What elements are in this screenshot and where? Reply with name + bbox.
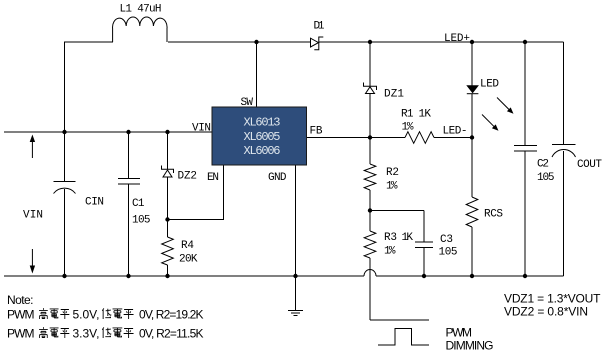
- wire: C2 bottom lead: [524, 151, 526, 276]
- svg-text:105: 105: [132, 215, 151, 227]
- svg-text:VIN: VIN: [192, 123, 211, 135]
- wire: R3 bottom lead crossing ground rail to PWM input: [370, 258, 429, 320]
- svg-text:R2: R2: [386, 167, 399, 179]
- svg-text:FB: FB: [310, 126, 323, 138]
- svg-text:0V, R2=11.5K: 0V, R2=11.5K: [139, 327, 204, 341]
- capacitor C2 plates: [514, 146, 537, 152]
- wire: EN pin drop and across to DZ2/R4 node: [168, 165, 224, 220]
- svg-text:COUT: COUT: [577, 159, 602, 171]
- wire: hop where R3 lead crosses ground rail: [364, 270, 376, 277]
- svg-text:1%: 1%: [384, 246, 396, 258]
- svg-text:0V, R2=19.2K: 0V, R2=19.2K: [139, 308, 204, 322]
- LED D2 (filled triangle + bar): [467, 86, 479, 94]
- wire: RCS bottom to ground rail: [471, 227, 473, 276]
- note: line 1 PWM high level 5.0V: [7, 308, 204, 322]
- diode D1 (schottky): [311, 37, 324, 50]
- zener DZ1: [364, 83, 377, 94]
- svg-text:PWM: PWM: [7, 308, 35, 322]
- wire: switch-node rail from L1 to D1 anode: [168, 41, 311, 43]
- wire: DZ1 bottom to FB node: [369, 94, 371, 138]
- node: L1/CIN junction on input rail: [62, 130, 66, 134]
- svg-text:RCS: RCS: [484, 209, 503, 221]
- wire: R4 top lead: [167, 220, 169, 238]
- wire: DZ2 top lead: [167, 132, 169, 170]
- node: SW junction on switch rail: [254, 40, 258, 44]
- wire: ground bottom rail left of hop: [4, 275, 364, 277]
- wire: output top rail from D1 cathode to right edge: [319, 41, 564, 43]
- VIN polarity up arrow: [30, 135, 35, 159]
- node: DZ1 junction on output rail: [368, 40, 372, 44]
- wire: CIN top lead: [64, 132, 66, 181]
- resistor R3 1K 1% (vertical zigzag): [364, 231, 376, 258]
- node: RCS ground junction: [470, 274, 474, 278]
- VIN polarity down arrow: [30, 249, 35, 274]
- svg-text:VDZ1 = 1.3*VOUT: VDZ1 = 1.3*VOUT: [504, 292, 601, 306]
- capacitor CIN (polarized, curved bottom plate): [54, 182, 76, 194]
- wire: VIN input top rail: [4, 131, 212, 133]
- note: line 2 PWM high level 3.3V: [7, 327, 204, 341]
- wire: CIN bottom lead: [64, 189, 66, 276]
- node: C3 ground junction: [422, 274, 426, 278]
- wire: R3 top lead: [369, 211, 371, 232]
- LED emission arrow 1: [497, 98, 514, 114]
- zener DZ2: [162, 166, 174, 178]
- node: C1 ground junction: [126, 274, 130, 278]
- wire: R4 bottom lead: [167, 265, 169, 276]
- wire: C2 top lead: [524, 42, 526, 146]
- svg-text:5.0V,: 5.0V,: [73, 308, 100, 322]
- svg-text:R1 1K: R1 1K: [401, 109, 431, 121]
- capacitor C3 plates: [415, 242, 433, 248]
- svg-text:1K: 1K: [402, 232, 414, 244]
- wire: R2 bottom lead to node: [369, 190, 371, 211]
- node: R4 ground junction: [165, 274, 169, 278]
- capacitor C1 plates: [118, 179, 140, 185]
- inductor L1: [113, 17, 168, 42]
- node: GND pin junction: [293, 274, 297, 278]
- svg-text:XL6005: XL6005: [244, 130, 281, 144]
- svg-text:VDZ2 = 0.8*VIN: VDZ2 = 0.8*VIN: [504, 305, 588, 319]
- wire: right edge down to COUT top plate: [563, 42, 565, 144]
- svg-text:XL6006: XL6006: [244, 144, 281, 158]
- svg-text:R4: R4: [181, 240, 194, 252]
- svg-text:R3: R3: [384, 232, 397, 244]
- wire: LED+ branch top lead: [471, 42, 473, 86]
- resistor R2 1% (vertical zigzag): [364, 164, 376, 190]
- svg-text:VIN: VIN: [23, 210, 43, 222]
- wire: R2 top lead: [369, 138, 371, 165]
- svg-text:C3: C3: [440, 234, 453, 246]
- resistor R1 1K 1% (horizontal zigzag): [405, 132, 434, 144]
- wire: LED cathode to LED- node: [471, 94, 473, 138]
- node: FB node: [368, 135, 372, 139]
- wire: ground bottom rail right of hop: [376, 275, 564, 277]
- svg-text:LED: LED: [480, 79, 499, 91]
- node: LED- node: [470, 135, 474, 139]
- node: C2 junction on output rail: [523, 40, 527, 44]
- svg-text:LED+: LED+: [444, 33, 470, 45]
- wire: C3 bottom to ground rail: [423, 248, 425, 277]
- wire: DZ2 bottom to EN node: [167, 177, 169, 220]
- resistor RCS (vertical zigzag): [466, 197, 478, 227]
- ground symbol bars: [288, 311, 303, 316]
- svg-text:EN: EN: [207, 172, 219, 184]
- wire: R1 right to LED- node: [434, 137, 472, 139]
- svg-text:105: 105: [439, 247, 458, 259]
- svg-text:DZ2: DZ2: [178, 171, 198, 183]
- svg-text:3.3V,: 3.3V,: [73, 327, 100, 341]
- svg-text:1%: 1%: [402, 122, 414, 134]
- wire: FB pin to R1 left: [307, 137, 406, 139]
- wire: C1 top lead: [128, 132, 130, 179]
- node: DZ2/EN/R4 node: [165, 217, 169, 221]
- svg-text:D1: D1: [314, 21, 325, 33]
- wire: input rail up to inductor left lead: [65, 42, 114, 132]
- node: C2 ground junction: [523, 274, 527, 278]
- svg-text:GND: GND: [268, 172, 287, 184]
- LED emission arrow 2: [482, 115, 499, 131]
- wire: GND pin drop to ground rail: [295, 165, 297, 276]
- node: DZ2 junction on input rail: [165, 130, 169, 134]
- svg-text:Note:: Note:: [7, 293, 34, 307]
- svg-text:105: 105: [537, 172, 555, 184]
- svg-text:PWM: PWM: [7, 327, 35, 341]
- op-amp U1: regulator IC XL6013/XL6005/XL6006 body: [212, 107, 307, 165]
- node: LED+ junction on output rail: [470, 40, 474, 44]
- node: C1 junction on input rail: [126, 130, 130, 134]
- wire: C1 bottom lead: [128, 184, 130, 276]
- svg-text:C2: C2: [537, 159, 549, 171]
- svg-text:1%: 1%: [386, 181, 398, 193]
- wire: DZ1 branch upper lead: [369, 42, 371, 86]
- svg-text:XL6013: XL6013: [244, 116, 281, 130]
- wire: COUT bottom plate down to ground rail: [563, 151, 565, 276]
- PWM waveform symbol: [378, 329, 429, 346]
- svg-text:20K: 20K: [179, 254, 198, 266]
- capacitor COUT (polarized, curved bottom plate): [552, 145, 576, 158]
- wire: node to C3 top: [370, 211, 424, 243]
- svg-text:PWM: PWM: [446, 326, 473, 340]
- svg-text:CIN: CIN: [85, 197, 104, 209]
- wire: LED- node to RCS top: [471, 138, 473, 198]
- svg-text:C1: C1: [132, 198, 145, 210]
- svg-text:LED-: LED-: [443, 126, 468, 138]
- svg-text:DZ1: DZ1: [384, 89, 404, 101]
- svg-text:SW: SW: [241, 97, 254, 109]
- ground: stem below rail: [295, 276, 297, 311]
- svg-text:L1 47uH: L1 47uH: [120, 4, 162, 16]
- resistor R4 20K (vertical zigzag): [162, 237, 174, 265]
- svg-text:DIMMING: DIMMING: [446, 339, 494, 353]
- node: CIN ground junction: [62, 274, 66, 278]
- wire: SW pin drop from rail into IC top: [256, 42, 258, 107]
- node: R2/R3/C3 node: [368, 208, 372, 212]
